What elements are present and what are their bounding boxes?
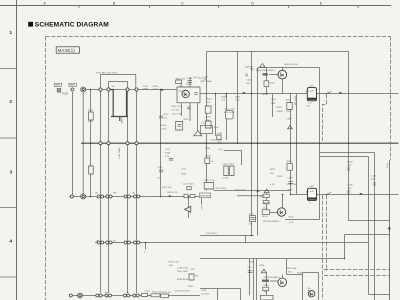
svg-text:R203: R203: [206, 117, 212, 119]
svg-text:C216: C216: [249, 214, 255, 216]
svg-text:R217 4.7k: R217 4.7k: [236, 189, 246, 191]
svg-text:R139: R139: [181, 174, 187, 176]
svg-text:L201: L201: [204, 77, 210, 79]
svg-text:C206: C206: [286, 111, 292, 113]
svg-text:2SC2240-GR(B,L): 2SC2240-GR(B,L): [264, 277, 281, 279]
svg-text:R164: R164: [205, 148, 211, 150]
svg-text:REC 2SRR: REC 2SRR: [201, 81, 212, 83]
svg-text:100u: 100u: [214, 127, 220, 129]
svg-text:GND: GND: [55, 85, 60, 87]
svg-text:C126 R155 10k: C126 R155 10k: [175, 291, 191, 293]
svg-text:R136: R136: [165, 153, 171, 155]
svg-text:SCHEMATIC DIAGRAM: SCHEMATIC DIAGRAM: [35, 22, 109, 29]
svg-text:S.M ONLY: S.M ONLY: [200, 196, 211, 198]
svg-text:R248 100: R248 100: [287, 184, 297, 186]
svg-text:MAIN(1): MAIN(1): [58, 48, 76, 53]
svg-text:C230: C230: [348, 185, 354, 187]
svg-text:100P: 100P: [288, 190, 294, 192]
svg-text:2200P: 2200P: [277, 111, 284, 113]
svg-text:P101 REC OUT P102: P101 REC OUT P102: [96, 73, 118, 75]
svg-text:R162 100k: R162 100k: [216, 188, 227, 190]
svg-text:220P: 220P: [287, 119, 293, 121]
svg-text:47P: 47P: [371, 179, 375, 181]
svg-text:R161 1.2k: R161 1.2k: [168, 192, 179, 194]
svg-text:R117: R117: [88, 110, 94, 112]
svg-text:R236: R236: [297, 273, 303, 275]
svg-text:2: 2: [10, 99, 13, 104]
svg-text:R205: R205: [277, 107, 283, 109]
svg-text:1000P: 1000P: [186, 84, 193, 86]
svg-text:C103: C103: [187, 78, 193, 80]
svg-text:C110: C110: [164, 114, 170, 116]
svg-text:C152: C152: [145, 291, 151, 293]
svg-text:2SC2240-GR(B,L): 2SC2240-GR(B,L): [259, 70, 276, 72]
svg-text:1.5uF: 1.5uF: [308, 91, 314, 93]
svg-text:R207 33k: R207 33k: [294, 96, 296, 106]
svg-text:2SC2240-GR(B,L): 2SC2240-GR(B,L): [263, 221, 280, 223]
svg-text:REC: REC: [113, 193, 118, 195]
svg-text:R153 150: R153 150: [162, 292, 172, 294]
svg-text:R233: R233: [264, 285, 270, 287]
svg-text:Q101: Q101: [179, 91, 185, 93]
svg-text:GND: GND: [70, 85, 75, 87]
svg-text:D: D: [251, 1, 254, 5]
svg-text:4.7k 47u: 4.7k 47u: [171, 110, 180, 112]
svg-text:C128 C154: C128 C154: [177, 268, 189, 270]
svg-text:R249 100k: R249 100k: [287, 268, 298, 270]
svg-text:R215 1.5k: R215 1.5k: [205, 180, 216, 182]
svg-text:2200 100P: 2200 100P: [177, 271, 188, 273]
svg-text:B101 R10 100: B101 R10 100: [285, 64, 299, 66]
svg-text:C127: C127: [190, 269, 196, 271]
svg-text:R206: R206: [286, 100, 292, 102]
svg-text:FUSE: FUSE: [62, 94, 69, 96]
svg-text:R213: R213: [277, 176, 283, 178]
svg-text:1.07k: 1.07k: [161, 128, 167, 130]
svg-text:100u: 100u: [217, 142, 223, 144]
svg-text:C119: C119: [217, 133, 223, 135]
svg-text:2WAY LEFT: 2WAY LEFT: [118, 148, 121, 160]
svg-text:R123 C111: R123 C111: [212, 140, 224, 142]
svg-text:R157: R157: [188, 286, 194, 288]
svg-text:C117: C117: [165, 149, 171, 151]
svg-text:R113: R113: [184, 119, 190, 121]
svg-text:C120: C120: [157, 167, 163, 169]
svg-text:4.7k 0.018: 4.7k 0.018: [224, 112, 235, 114]
svg-text:Q202: Q202: [260, 196, 266, 198]
svg-text:R211: R211: [287, 161, 293, 163]
svg-text:C201: C201: [247, 80, 253, 82]
svg-text:C231: C231: [371, 176, 377, 178]
svg-text:4: 4: [10, 238, 13, 243]
svg-text:R214: R214: [206, 156, 212, 158]
svg-text:1.5uF: 1.5uF: [308, 191, 314, 193]
svg-text:1: 1: [10, 30, 13, 35]
svg-text:47u 50V: 47u 50V: [201, 294, 210, 296]
svg-text:10P: 10P: [247, 83, 251, 85]
svg-text:R241: R241: [348, 162, 354, 164]
svg-text:R231: R231: [250, 261, 256, 263]
svg-text:R158 R159: R158 R159: [177, 279, 189, 281]
svg-text:R143 C125: R143 C125: [169, 262, 180, 264]
svg-text:1.07k: 1.07k: [88, 121, 94, 123]
svg-text:C229: C229: [201, 290, 207, 292]
svg-text:C217: C217: [247, 267, 253, 269]
svg-text:R212: R212: [270, 169, 276, 171]
svg-text:C121: C121: [181, 169, 187, 171]
svg-text:C: C: [181, 1, 184, 5]
svg-text:R151 6.8k: R151 6.8k: [152, 292, 162, 294]
svg-text:A202: A202: [263, 93, 269, 96]
svg-text:R208: R208: [245, 67, 251, 69]
svg-text:Q204: Q204: [259, 265, 265, 267]
svg-text:R204: R204: [207, 99, 213, 101]
svg-text:0.018: 0.018: [223, 178, 229, 180]
svg-text:0.022 3.3k: 0.022 3.3k: [171, 114, 182, 116]
svg-text:10P: 10P: [348, 188, 352, 190]
svg-text:C122 R141: C122 R141: [183, 184, 195, 186]
svg-text:R115: R115: [161, 125, 167, 127]
svg-text:C205: C205: [271, 99, 277, 101]
svg-text:R107 302: R107 302: [176, 78, 186, 80]
svg-text:R137 1.2k: R137 1.2k: [162, 187, 172, 189]
svg-text:R111 C106: R111 C106: [171, 106, 183, 108]
svg-text:443R: 443R: [143, 88, 149, 90]
svg-text:C118: C118: [201, 123, 207, 125]
svg-text:C213 C214: C213 C214: [223, 164, 235, 166]
svg-text:C208: C208: [288, 178, 294, 180]
svg-text:R226: R226: [289, 217, 295, 219]
svg-text:R202: R202: [235, 97, 241, 99]
svg-text:C211 C212: C211 C212: [224, 109, 236, 111]
svg-text:2WAY: 2WAY: [120, 118, 123, 124]
svg-text:3: 3: [10, 169, 13, 174]
svg-text:C215 R230: C215 R230: [206, 233, 218, 235]
svg-text:A 240: A 240: [263, 215, 269, 218]
svg-text:R218: R218: [264, 202, 270, 204]
